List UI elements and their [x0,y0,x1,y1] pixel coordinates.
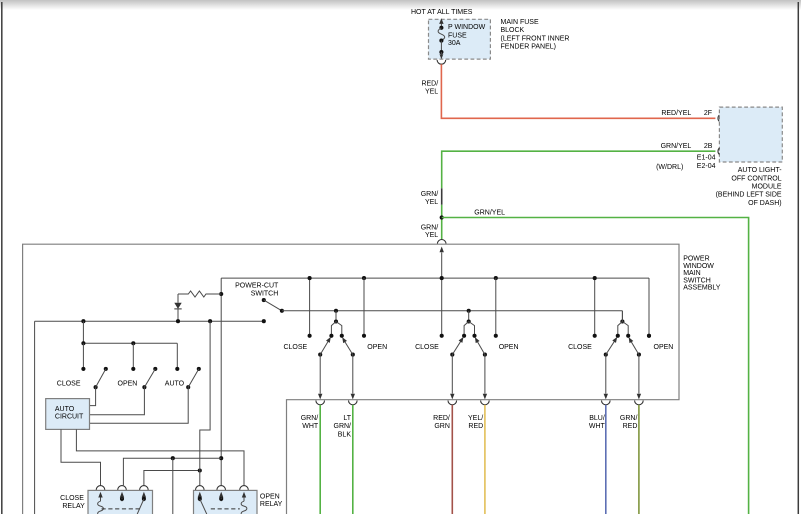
connector below fuse block [437,60,446,64]
switch blade open [627,336,641,357]
wire bus right drop to open contact [648,278,650,336]
switch blade open [340,336,355,357]
connector 2F at module [718,115,719,121]
svg-text:RED/: RED/ [433,415,450,422]
fuse F1 P WINDOW FUSE 30A symbol [438,18,445,59]
svg-text:CLOSE: CLOSE [283,344,307,351]
open relay coil [241,501,247,514]
wire open contact drop [363,278,365,336]
wire LT GRN/BLK [352,405,354,514]
wire auto circuit to close relay coil [61,429,101,485]
wire common bracket [618,322,628,336]
switch AUTO [90,367,201,423]
connector open output [635,401,644,405]
switch blade close [450,336,465,357]
node rail drop close feed [81,319,85,323]
wire rail left leg down [34,321,36,514]
label LT GRN/BLK [334,415,352,439]
connector open output [349,401,358,405]
node junction T2 rail [171,456,175,460]
svg-text:SWITCH: SWITCH [683,277,711,284]
svg-text:E2-04: E2-04 [697,163,716,170]
wire GRN/WHT [319,405,321,514]
node bracket left [329,334,333,338]
node close contact [593,334,597,338]
svg-text:WINDOW: WINDOW [683,263,714,270]
svg-text:CLOSE: CLOSE [568,344,592,351]
node power-cut switch terminal [262,319,266,323]
wire switch common feed [468,311,470,322]
node close contact [308,334,312,338]
svg-text:WHT: WHT [589,423,606,430]
wire close relay T3 to open relay T1 [144,471,200,486]
connector close output [316,401,325,405]
node diode junction [176,319,180,323]
svg-text:RED/: RED/ [421,80,438,87]
wire close contact drop [594,278,596,336]
node contact auto [175,367,179,371]
wire open contact drop [648,278,650,336]
page top shade [0,0,801,10]
svg-text:FENDER PANEL): FENDER PANEL) [501,43,557,50]
svg-text:GRN/: GRN/ [620,415,638,422]
svg-text:BLU/: BLU/ [589,415,605,422]
power window main switch assembly box [23,244,679,514]
svg-text:GRN/YEL: GRN/YEL [474,210,505,217]
svg-text:OPEN: OPEN [499,344,519,351]
label GRN/WHT [301,415,319,430]
open relay box [194,490,258,514]
wire switch common feed [335,311,337,322]
connector 2B at module [718,148,719,154]
label OPEN RELAY [260,494,283,508]
open relay contacts [198,497,224,514]
svg-text:OPEN: OPEN [654,344,674,351]
node switched bus tap [467,309,471,313]
svg-text:POWER: POWER [683,256,709,263]
node switched bus tap [334,309,338,313]
label MAIN FUSE BLOCK (LEFT FRONT INNER FENDER PANEL) [501,19,570,50]
wire to close output pin [318,355,322,400]
wire to close output pin [450,355,454,400]
svg-text:POWER-CUT: POWER-CUT [235,283,279,290]
svg-text:YEL: YEL [425,199,438,206]
svg-text:BLK: BLK [338,432,352,439]
svg-text:LT: LT [343,415,351,422]
svg-text:P WINDOW: P WINDOW [448,24,486,31]
wire RED/YEL from fuse to auto light-off module [441,64,715,118]
switch OPEN [90,367,158,415]
label GRN/ YEL upper [421,191,439,206]
wire to close output pin [604,355,608,400]
label RED/YEL vertical wire [421,80,438,95]
node open contact top [494,276,498,280]
svg-text:RED: RED [623,423,638,430]
arrow input pin GRN/YEL [440,247,444,279]
node GRN/YEL junction [440,215,444,219]
wire to open output pin [483,355,487,400]
page right border [797,2,799,514]
close relay box [88,490,153,514]
wire close contact drop [441,278,443,336]
wire BLU/WHT [605,405,607,514]
node close contact top [308,276,312,280]
wire GRN/YEL to switch assembly [441,205,443,240]
node close drop [81,341,85,345]
node open drop [131,341,135,345]
svg-text:RELAY: RELAY [62,503,85,510]
wire common bracket [464,322,474,336]
node common [620,319,624,323]
node bracket right [340,334,344,338]
label AUTO CIRCUIT [55,406,84,421]
wire bus switched horizontal [282,310,623,312]
svg-text:YEL: YEL [425,232,438,239]
node open contact top [362,276,366,280]
wire close contact drop [309,278,311,336]
svg-text:OFF CONTROL: OFF CONTROL [731,175,781,182]
wire left switch bus [83,342,177,344]
wire open contact drop [495,278,497,336]
open relay pins [198,492,247,501]
close relay actuator dashed [102,508,141,510]
svg-text:RED/YEL: RED/YEL [661,110,691,117]
svg-text:MODULE: MODULE [752,184,782,191]
svg-text:(BEHIND LEFT SIDE: (BEHIND LEFT SIDE [716,192,782,199]
svg-text:30A: 30A [448,40,461,47]
svg-text:GRN/YEL: GRN/YEL [661,143,692,150]
connector close output [448,401,457,405]
label POWER-CUT SWITCH [235,283,279,298]
wire to open output pin [351,355,355,400]
svg-text:BLOCK: BLOCK [501,27,525,34]
page left border [1,2,3,514]
wire common bracket [331,322,341,336]
label P WINDOW FUSE 30A [448,24,486,47]
node close contact [440,334,444,338]
node open contact [647,334,651,338]
svg-text:E1-04: E1-04 [697,154,716,161]
switch CLOSE [90,367,108,406]
close relay contacts [120,497,146,514]
label RED/GRN [433,415,450,430]
wire bus switched corner down [621,311,623,322]
label BLU/WHT [589,415,606,430]
svg-text:CIRCUIT: CIRCUIT [55,414,84,421]
wire bus B+ horizontal [221,277,649,279]
wire GRN/YEL from module 2B [442,151,716,188]
node close contact top [440,276,444,280]
svg-text:RED: RED [468,423,483,430]
wire drops to contacts [83,343,177,369]
node open contact [362,334,366,338]
wire diode output rail [35,320,264,322]
svg-text:CLOSE: CLOSE [57,381,81,388]
svg-text:CLOSE: CLOSE [415,344,439,351]
wire switch common feed [621,311,623,322]
svg-text:OF DASH): OF DASH) [748,200,781,207]
switch blade close [604,336,619,357]
node open contact group3 [647,334,651,338]
node open relay T1 junction [198,468,202,472]
power-cut switch [262,298,284,313]
svg-text:OPEN: OPEN [367,344,387,351]
node bracket right [626,334,630,338]
wire YEL/RED [484,405,486,514]
svg-text:(W/DRL): (W/DRL) [656,164,683,171]
svg-text:AUTO LIGHT-: AUTO LIGHT- [738,167,782,174]
svg-text:YEL/: YEL/ [468,415,483,422]
wire auto circuit to open relay coil [76,429,244,485]
svg-text:OPEN: OPEN [260,494,280,501]
close relay coil [98,501,104,514]
wire RED/GRN [451,405,453,514]
close relay pins [98,492,146,501]
label AUTO LIGHT-OFF CONTROL MODULE (BEHIND LEFT SIDE OF DASH) [716,167,783,207]
wire to open output pin [637,355,641,400]
svg-text:WHT: WHT [302,423,319,430]
node resistor tap [219,292,223,296]
node common [334,319,338,323]
switch blade open [473,336,487,357]
svg-text:RELAY: RELAY [260,501,283,508]
svg-text:GRN/: GRN/ [421,191,439,198]
svg-text:FUSE: FUSE [448,32,467,39]
resistor R1 [178,291,221,297]
node bracket left [462,334,466,338]
svg-text:SWITCH: SWITCH [251,291,279,298]
svg-text:GRN: GRN [434,423,450,430]
open relay actuator dashed [211,508,240,510]
svg-text:MAIN FUSE: MAIN FUSE [501,19,539,26]
switch blade close [318,336,333,357]
main fuse block box [429,19,491,59]
svg-text:CLOSE: CLOSE [60,495,84,502]
wire rail to open relay T1 [200,321,210,485]
label YEL/RED [468,415,483,430]
wire close relay T2 to bus [123,458,221,485]
wire close feed drop [82,321,84,343]
svg-text:AUTO: AUTO [55,406,75,413]
label GRN/RED [620,415,638,430]
svg-text:2F: 2F [704,110,712,117]
node open contact [494,334,498,338]
svg-text:GRN/: GRN/ [301,415,319,422]
node close contact top [593,276,597,280]
connector at switch assembly top [437,240,446,244]
svg-text:GRN/: GRN/ [334,423,352,430]
node bus junction at open relay feed [219,456,223,460]
wire GRN/YEL dark segment [441,188,443,205]
diode D1 [174,294,181,321]
node contact open [131,367,135,371]
node bracket left [616,334,620,338]
svg-text:GRN/: GRN/ [421,224,439,231]
label POWER WINDOW MAIN SWITCH ASSEMBLY [683,256,721,292]
open relay connectors [196,486,249,490]
wire drop between relays [172,458,174,514]
svg-text:2B: 2B [704,143,713,150]
label CLOSE RELAY [60,495,85,510]
connector open output [481,401,490,405]
svg-text:YEL: YEL [425,89,438,96]
close relay connectors [96,486,148,490]
wire GRN/YEL branch to right edge [442,218,749,514]
wire bus left vertical to open relay [220,278,222,485]
connector close output [602,401,611,405]
auto circuit box U1 [46,399,90,430]
node common [467,319,471,323]
node rail drop relay feed [208,319,212,323]
svg-text:HOT AT ALL TIMES: HOT AT ALL TIMES [411,9,473,16]
label GRN/ YEL lower [421,224,439,239]
auto light-off control module box [719,107,782,162]
svg-text:AUTO: AUTO [165,381,185,388]
svg-text:MAIN: MAIN [683,270,701,277]
node bracket right [472,334,476,338]
wire GRN/RED [638,405,640,514]
svg-text:ASSEMBLY: ASSEMBLY [683,285,721,292]
svg-text:(LEFT FRONT INNER: (LEFT FRONT INNER [501,36,570,43]
svg-text:OPEN: OPEN [118,381,138,388]
node contact close [81,367,85,371]
